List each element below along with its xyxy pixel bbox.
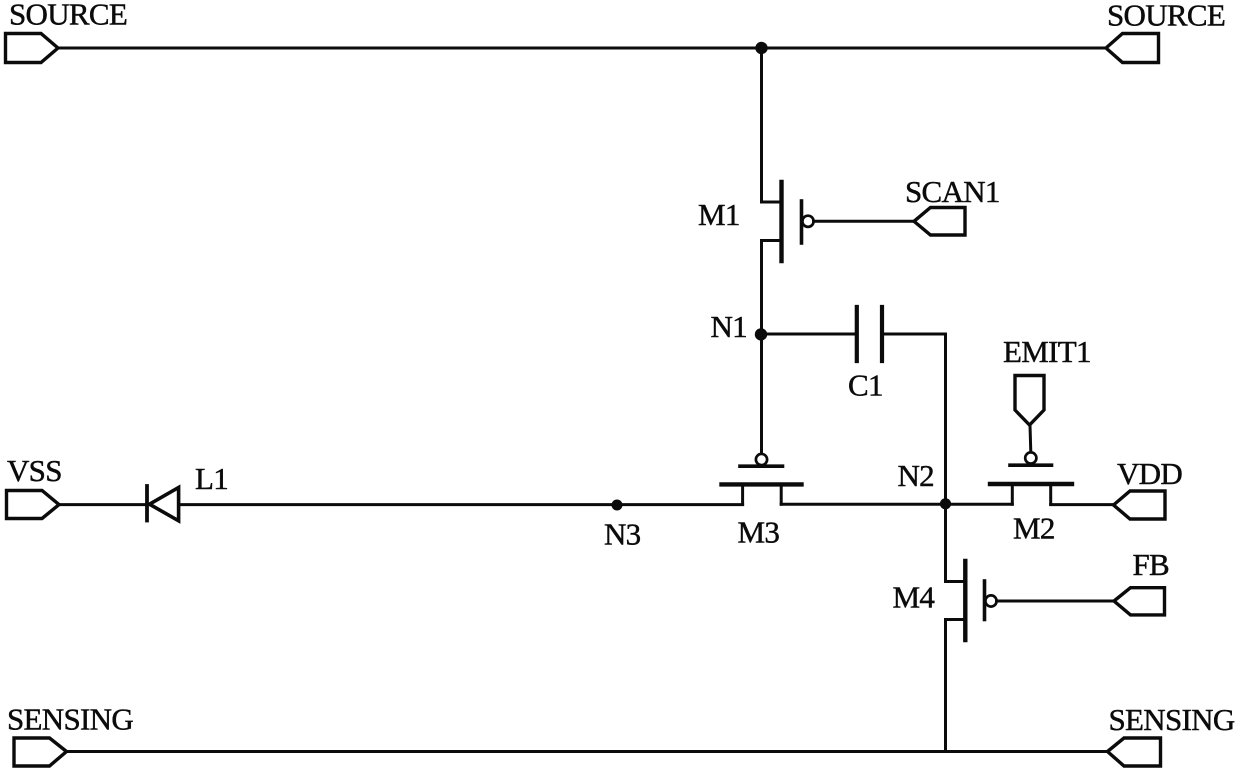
- svg-text:VDD: VDD: [1117, 456, 1182, 491]
- transistor M4 gate bubble: [985, 595, 996, 606]
- wire M4 gate to FB: [997, 600, 1115, 603]
- diode L1 triangle: [150, 488, 179, 521]
- svg-text:EMIT1: EMIT1: [1003, 334, 1091, 369]
- svg-text:N2: N2: [898, 458, 935, 493]
- wire N2 to M4 drain: [946, 504, 964, 582]
- svg-text:M4: M4: [893, 580, 936, 615]
- transistor M3 gate bar: [740, 464, 783, 468]
- wire VSS to diode L1: [59, 503, 145, 506]
- svg-text:C1: C1: [848, 368, 883, 403]
- transistor M2 drain stub: [1049, 484, 1052, 504]
- transistor M4 channel bar: [963, 561, 967, 640]
- svg-text:N1: N1: [711, 309, 748, 344]
- terminal VSS: [7, 491, 60, 519]
- svg-text:SENSING: SENSING: [1109, 702, 1235, 737]
- terminal SOURCE (top right): [1106, 34, 1159, 63]
- svg-text:SENSING: SENSING: [7, 702, 133, 737]
- diode L1 cathode bar: [145, 486, 149, 521]
- svg-text:VSS: VSS: [7, 453, 62, 488]
- wire EMIT1 to M2 gate: [1029, 425, 1033, 453]
- capacitor C1 left plate: [855, 307, 859, 361]
- transistor M1 channel bar: [779, 182, 783, 261]
- wire N1 to M3 gate: [760, 335, 763, 455]
- svg-text:SCAN1: SCAN1: [905, 174, 1000, 209]
- wire bottom SENSING rail: [67, 750, 1108, 753]
- transistor M2 channel bar: [990, 482, 1072, 486]
- wire M2 drain to VDD: [1051, 503, 1114, 506]
- node N1: [755, 328, 767, 340]
- svg-text:M2: M2: [1013, 511, 1055, 546]
- transistor M1 gate bubble: [802, 216, 813, 227]
- transistor M1 gate bar: [800, 201, 804, 243]
- wire diode L1 to M3 source: [179, 503, 743, 506]
- terminal VDD: [1114, 491, 1166, 519]
- wire M4 source to SENSING rail: [946, 620, 964, 752]
- terminal SOURCE (top left): [6, 34, 59, 63]
- wire top SOURCE rail: [58, 47, 1106, 50]
- transistor M2 gate bubble: [1025, 452, 1036, 463]
- transistor M2 gate bar: [1010, 463, 1052, 467]
- capacitor C1 right plate: [880, 307, 884, 361]
- transistor M3 gate bubble: [756, 454, 767, 465]
- svg-text:L1: L1: [195, 461, 228, 496]
- wire M3 drain to node N2: [781, 503, 945, 506]
- svg-text:SOURCE: SOURCE: [1107, 0, 1225, 33]
- wire N1 to C1 left plate: [762, 333, 856, 336]
- wire N2 to M2 source: [946, 503, 1013, 506]
- terminal SCAN1: [914, 208, 965, 236]
- wire C1 right plate to node N2: [884, 334, 946, 504]
- wire SOURCE junction to M1 source: [762, 48, 780, 202]
- terminal SENSING (bottom left): [14, 738, 67, 766]
- node N2: [940, 498, 951, 509]
- svg-text:FB: FB: [1133, 547, 1170, 582]
- terminal EMIT1: [1015, 376, 1044, 426]
- wire M1 drain to node N1: [762, 241, 780, 335]
- wire M1 gate to SCAN1: [814, 220, 915, 223]
- transistor M2 source stub: [1011, 484, 1014, 504]
- terminal FB: [1114, 588, 1165, 615]
- transistor M4 gate bar: [983, 581, 987, 620]
- svg-text:N3: N3: [604, 517, 641, 552]
- junction on SOURCE rail: [755, 42, 767, 54]
- node N3: [612, 500, 623, 511]
- svg-text:SOURCE: SOURCE: [9, 0, 127, 32]
- transistor M3 drain stub: [780, 484, 783, 504]
- transistor M3 source stub: [741, 484, 744, 504]
- terminal SENSING (bottom right): [1108, 738, 1161, 766]
- transistor M3 channel bar: [722, 482, 802, 486]
- svg-text:M3: M3: [738, 515, 780, 550]
- svg-text:M1: M1: [698, 197, 740, 232]
